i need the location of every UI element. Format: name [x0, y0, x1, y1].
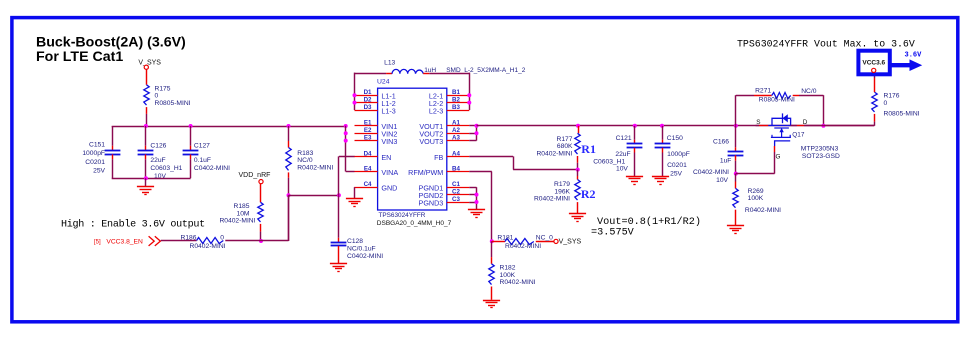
svg-text:D4: D4 [364, 150, 372, 157]
svg-text:1000pF: 1000pF [667, 151, 690, 158]
node junction [189, 124, 193, 128]
wire [423, 73, 469, 110]
svg-text:TPS63024YFFR Vout Max. to 3.6V: TPS63024YFFR Vout Max. to 3.6V [737, 39, 915, 50]
resistor R186 [181, 234, 226, 250]
wire VIN rail [112, 126, 346, 128]
svg-text:C150: C150 [667, 135, 683, 142]
svg-text:VCC3.6: VCC3.6 [862, 60, 885, 67]
svg-text:R186: R186 [181, 234, 197, 241]
node junction [344, 124, 348, 128]
svg-text:NC/0: NC/0 [297, 157, 313, 164]
node junction [475, 124, 479, 128]
svg-text:High : Enable 3.6V output: High : Enable 3.6V output [61, 219, 205, 231]
power port V_SYS [554, 239, 582, 246]
pin C3 PGND3 [419, 196, 470, 208]
svg-text:R0402-MINI: R0402-MINI [534, 196, 570, 203]
value label [379, 212, 426, 219]
node junction [353, 93, 357, 97]
svg-text:B1: B1 [452, 89, 460, 96]
svg-text:D3: D3 [364, 104, 372, 111]
svg-text:R0402-MINI: R0402-MINI [536, 150, 572, 157]
node junction [344, 131, 348, 135]
capacitor C166 [693, 126, 743, 184]
svg-text:R2: R2 [581, 187, 596, 201]
wire [823, 122, 874, 126]
svg-text:NC_0: NC_0 [536, 234, 553, 241]
svg-text:R0402-MINI: R0402-MINI [505, 243, 541, 250]
svg-text:Q17: Q17 [792, 132, 805, 139]
svg-text:C1: C1 [452, 181, 460, 188]
svg-text:GND: GND [381, 184, 397, 193]
svg-text:R0805-MINI: R0805-MINI [884, 111, 920, 118]
ground [569, 214, 586, 222]
svg-text:1uH: 1uH [424, 67, 436, 74]
svg-text:R176: R176 [884, 92, 900, 99]
pin A4 FB [434, 150, 469, 162]
text enable note [61, 219, 205, 231]
value label [446, 67, 526, 74]
node junction [259, 239, 263, 243]
svg-text:C0402-MINI: C0402-MINI [194, 165, 230, 172]
ground [727, 226, 744, 234]
svg-text:R269: R269 [748, 188, 764, 195]
svg-text:1000pF: 1000pF [82, 150, 105, 157]
svg-text:V_SYS: V_SYS [559, 239, 582, 246]
pin D2 L1-2 [355, 97, 396, 109]
svg-text:A2: A2 [452, 127, 460, 134]
pin C4 GND [355, 181, 398, 193]
node junction [475, 200, 479, 204]
node junction [144, 176, 148, 180]
pin A3 VOUT3 [419, 135, 469, 147]
node junction [821, 124, 825, 128]
svg-text:C151: C151 [89, 142, 105, 149]
text note [737, 39, 915, 50]
svg-text:VINA: VINA [381, 168, 398, 177]
ground [626, 177, 643, 185]
svg-text:FB: FB [434, 153, 443, 162]
resistor R269 [733, 174, 781, 226]
node junction [475, 193, 479, 197]
node junction [734, 124, 738, 128]
op-amp U1 IC body U24 [377, 78, 447, 210]
svg-text:680K: 680K [557, 143, 573, 150]
svg-text:25V: 25V [670, 170, 682, 177]
svg-text:3.6V: 3.6V [905, 51, 923, 59]
svg-text:V_SYS: V_SYS [138, 59, 161, 66]
svg-text:0.1uF: 0.1uF [194, 157, 211, 164]
capacitor C126 [138, 126, 183, 180]
svg-text:22uF: 22uF [150, 157, 165, 164]
wire [260, 184, 262, 203]
wire VOUT pins [469, 126, 476, 141]
pin B2 L2-2 [429, 97, 469, 109]
svg-text:E3: E3 [364, 135, 372, 142]
svg-text:SOT23-GSD: SOT23-GSD [802, 153, 840, 160]
ground [346, 199, 363, 207]
svg-text:DSBGA20_0_4MM_H0_7: DSBGA20_0_4MM_H0_7 [377, 220, 452, 227]
title text [36, 35, 186, 66]
net label R2 [581, 187, 596, 201]
node junction [467, 93, 471, 97]
ground [330, 264, 347, 272]
svg-text:L13: L13 [384, 59, 395, 66]
wire PGND [469, 187, 476, 209]
svg-text:R0805-MINI: R0805-MINI [759, 97, 795, 104]
svg-text:C166: C166 [713, 138, 729, 145]
node junction [287, 193, 291, 197]
wire RFM net [469, 172, 492, 242]
node junction [287, 124, 291, 128]
svg-text:10V: 10V [716, 177, 728, 184]
wire [145, 178, 147, 186]
resistor R185 [219, 202, 263, 224]
pin E3 VIN3 [355, 135, 398, 147]
svg-text:NC/0: NC/0 [801, 88, 817, 95]
svg-text:A4: A4 [452, 150, 460, 157]
svg-text:R181: R181 [497, 234, 513, 241]
wire FB net [469, 156, 578, 169]
resistor R183 [286, 126, 334, 195]
svg-text:C0201: C0201 [85, 159, 105, 166]
capacitor C127 [183, 126, 230, 178]
svg-text:For LTE Cat1: For LTE Cat1 [36, 49, 123, 65]
ground [483, 301, 500, 308]
net arrow 3.6V [891, 51, 922, 71]
pin C1 PGND1 [419, 181, 470, 193]
wire VOUT rail [477, 125, 875, 127]
capacitor C121 [593, 126, 642, 176]
resistor R179 [534, 170, 580, 214]
svg-text:25V: 25V [93, 167, 105, 174]
svg-text:=3.575V: =3.575V [591, 227, 635, 238]
wire [225, 195, 288, 241]
resistor R182 [489, 241, 536, 300]
node junction [353, 101, 357, 105]
svg-text:C4: C4 [364, 181, 372, 188]
ground [652, 177, 669, 185]
svg-text:SMD_L-2_5X2MM-A_H1_2: SMD_L-2_5X2MM-A_H1_2 [446, 67, 526, 74]
svg-text:U24: U24 [377, 78, 390, 85]
resistor R181 [492, 234, 554, 250]
svg-text:R182: R182 [500, 265, 516, 272]
svg-text:R185: R185 [234, 203, 250, 210]
wire EN net [289, 195, 339, 197]
wire [161, 240, 197, 242]
svg-text:22uF: 22uF [615, 151, 630, 158]
svg-text:E2: E2 [364, 127, 372, 134]
svg-text:B3: B3 [452, 104, 460, 111]
resistor R271 [736, 88, 824, 126]
node junction [576, 124, 580, 128]
svg-text:D1: D1 [364, 89, 372, 96]
pin D1 L1-1 [355, 89, 396, 101]
node junction [490, 239, 494, 243]
svg-text:A3: A3 [452, 135, 460, 142]
node junction [576, 168, 580, 172]
transistor Q2 MOSFET Q17 [756, 113, 840, 160]
svg-text:Vout=0.8(1+R1/R2): Vout=0.8(1+R1/R2) [597, 216, 701, 228]
svg-text:R0402-MINI: R0402-MINI [190, 243, 226, 250]
svg-text:C127: C127 [194, 142, 210, 149]
power port V_SYS [138, 59, 161, 69]
svg-text:C0402-MINI: C0402-MINI [693, 169, 729, 176]
svg-text:L2-3: L2-3 [429, 106, 443, 115]
ground [137, 187, 154, 195]
svg-text:RFM/PWM: RFM/PWM [408, 168, 443, 177]
svg-text:100K: 100K [748, 195, 764, 202]
resistor R175 [144, 85, 191, 107]
svg-text:[5]: [5] [94, 239, 101, 245]
pin E4 VINA [355, 165, 399, 177]
power port VCC3.6 [858, 51, 889, 75]
svg-text:0: 0 [220, 234, 224, 241]
svg-text:100K: 100K [500, 272, 516, 279]
wire [355, 73, 393, 75]
svg-text:0: 0 [884, 100, 888, 107]
wire [260, 224, 262, 241]
svg-text:R1: R1 [581, 142, 596, 156]
node junction [660, 124, 664, 128]
svg-text:C2: C2 [452, 189, 460, 196]
node junction [475, 131, 479, 135]
svg-text:VCC3.8_EN: VCC3.8_EN [106, 239, 143, 246]
pin B1 L2-1 [429, 89, 469, 101]
svg-text:C3: C3 [452, 196, 460, 203]
wire [353, 187, 355, 198]
svg-text:PGND3: PGND3 [419, 198, 444, 207]
svg-text:C0603_H1: C0603_H1 [593, 158, 625, 165]
svg-text:196K: 196K [554, 188, 570, 195]
off-page connector VCC3.8_EN [94, 236, 160, 246]
svg-text:S: S [756, 119, 760, 126]
svg-text:VOUT3: VOUT3 [419, 137, 443, 146]
svg-text:R177: R177 [557, 136, 573, 143]
svg-text:R0805-MINI: R0805-MINI [155, 100, 191, 107]
svg-text:B4: B4 [452, 165, 460, 172]
capacitor C151 [82, 126, 120, 178]
value label [377, 220, 452, 227]
wire L1 vertical [354, 73, 356, 110]
svg-text:NC/0.1uF: NC/0.1uF [347, 245, 376, 252]
node junction [144, 124, 148, 128]
svg-text:G: G [776, 154, 781, 161]
svg-text:VDD_nRF: VDD_nRF [239, 172, 271, 179]
svg-text:R271: R271 [755, 88, 771, 95]
svg-text:R0402-MINI: R0402-MINI [297, 164, 333, 171]
power port VDD_nRF [239, 172, 271, 184]
resistor R176 [872, 73, 920, 122]
svg-text:C0402-MINI: C0402-MINI [347, 253, 383, 260]
svg-text:EN: EN [381, 153, 391, 162]
ground [468, 210, 485, 218]
wire [288, 195, 290, 241]
svg-text:10V: 10V [616, 166, 628, 173]
wire [339, 156, 355, 195]
node junction [734, 172, 738, 176]
svg-text:R183: R183 [297, 150, 313, 157]
pin C2 PGND2 [419, 189, 470, 201]
node junction [344, 139, 348, 143]
net label R1 [581, 142, 596, 156]
pin E1 VIN1 [355, 120, 398, 132]
node junction [337, 193, 341, 197]
resistor R177 [536, 126, 580, 170]
svg-text:C0201: C0201 [667, 162, 687, 169]
capacitor C150 [655, 126, 690, 178]
svg-text:10M: 10M [236, 210, 249, 217]
inductor L13 [384, 59, 436, 73]
svg-text:TPS63024YFFR: TPS63024YFFR [379, 212, 426, 219]
svg-text:E1: E1 [364, 120, 372, 127]
capacitor C128 [331, 195, 384, 263]
pin B3 L2-3 [429, 104, 469, 116]
svg-text:0: 0 [155, 93, 159, 100]
svg-text:VIN3: VIN3 [381, 137, 397, 146]
pin A2 VOUT2 [419, 127, 469, 139]
pin E2 VIN2 [355, 127, 398, 139]
svg-text:A1: A1 [452, 120, 460, 127]
svg-text:R0402-MINI: R0402-MINI [500, 279, 536, 286]
svg-text:1uF: 1uF [720, 157, 732, 164]
text Vout formula [591, 216, 701, 239]
svg-text:B2: B2 [452, 97, 460, 104]
svg-text:C0603_H1: C0603_H1 [150, 165, 182, 172]
wire VIN pins [346, 126, 355, 172]
svg-text:R179: R179 [554, 181, 570, 188]
node junction [633, 124, 637, 128]
wire G net [736, 146, 775, 174]
wire [146, 107, 148, 126]
pin B4 RFM/PWM [408, 165, 469, 177]
svg-text:MTP2305N3: MTP2305N3 [801, 145, 839, 152]
pin D4 EN [355, 150, 392, 162]
svg-text:R0402-MINI: R0402-MINI [745, 207, 781, 214]
svg-text:R0402-MINI: R0402-MINI [219, 218, 255, 225]
svg-text:C126: C126 [150, 142, 166, 149]
pin A1 VOUT1 [419, 120, 469, 132]
svg-text:D: D [803, 119, 808, 126]
node junction [467, 101, 471, 105]
pin D3 L1-3 [355, 104, 396, 116]
svg-text:C121: C121 [616, 135, 632, 142]
wire bottom rail [112, 178, 191, 180]
svg-text:L1-3: L1-3 [381, 106, 395, 115]
svg-text:C128: C128 [347, 238, 363, 245]
svg-text:R175: R175 [155, 85, 171, 92]
wire [146, 69, 148, 84]
svg-text:D2: D2 [364, 97, 372, 104]
svg-text:E4: E4 [364, 165, 372, 172]
